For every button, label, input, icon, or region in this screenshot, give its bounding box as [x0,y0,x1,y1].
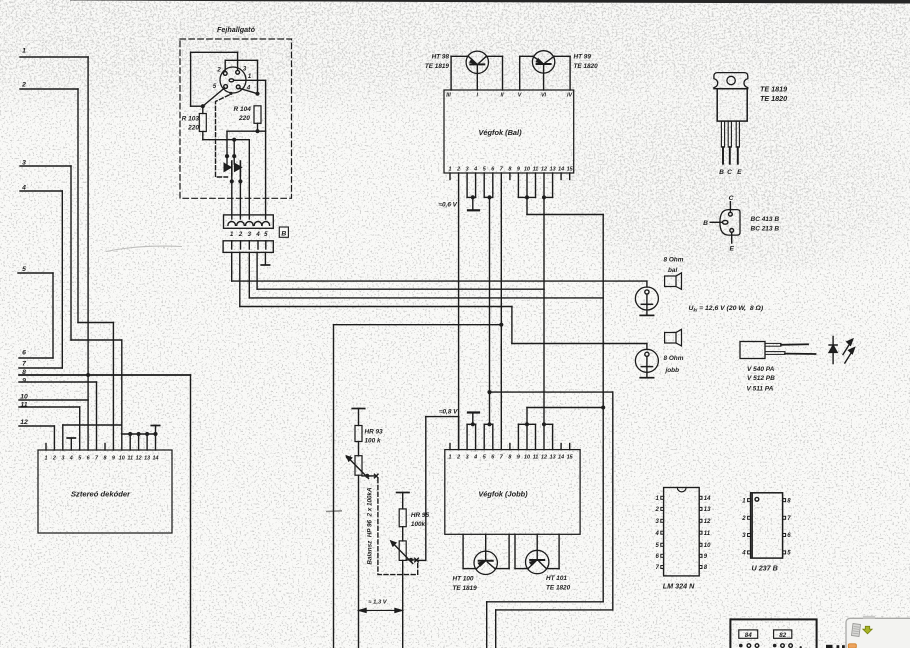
dimension 1.3V [359,600,401,613]
wire net2 (wire2 to decoder pin9) [78,89,113,450]
wire R103 bottom rail [203,140,250,219]
svg-text:13: 13 [550,455,556,461]
svg-text:100k: 100k [411,521,426,528]
LED symbol D1 [829,336,854,363]
jack socket 8 Ohm jobb [635,344,658,378]
wire DIN pin3 loop [191,52,238,106]
svg-text:TE 1820: TE 1820 [760,94,787,103]
wire 4 (left input stub) [20,185,62,192]
svg-text:Sztereó dekóder: Sztereó dekóder [71,490,131,499]
svg-text:Balansz HP 96 2 x 100kA: Balansz HP 96 2 x 100kA [367,487,374,565]
svg-text:R 104: R 104 [234,106,252,113]
svg-text:8: 8 [508,455,511,461]
svg-text:14: 14 [558,455,564,461]
service box 84 82 [730,619,816,648]
wire 5 (left input stub) [18,266,53,273]
svg-text:12: 12 [541,455,547,461]
svg-text:HT 98: HT 98 [432,54,450,61]
wire Jobb pins 3+4 terminal [467,413,479,450]
wire 8 (left input stub) [19,369,191,376]
svg-text:Uki = 12,6 V (20 W, 8 Ω): Uki = 12,6 V (20 W, 8 Ω) [689,305,764,313]
wire B2 to right speaker jack [240,252,647,343]
svg-text:BC 213 B: BC 213 B [751,226,780,233]
wire DIN pin4 diagonal [239,88,257,93]
node HR93 wiper [362,474,378,478]
speaker icon jobb [665,329,682,346]
decoder pin numbers 1-14 [45,455,159,461]
node R104 top [255,92,259,96]
decoder pin1 stub [45,444,47,451]
node branch 5-6 column [487,390,612,648]
wire column pins 5+6 Bal-Jobb [484,173,493,424]
wire column pin2 Bal-Jobb [458,173,460,450]
decoder pin8 stub [104,444,106,451]
artifact smear [326,510,342,513]
node switch feed [232,138,236,157]
switch contact S1a [224,154,234,219]
node pin7 tap [334,323,504,648]
label 0.8V [439,409,458,416]
svg-text:3: 3 [466,455,469,461]
transistor HT98 TE1819 [425,51,503,73]
svg-text:100 k: 100 k [365,438,381,445]
svg-text:III: III [446,93,451,99]
svg-text:9: 9 [112,455,115,461]
svg-text:12: 12 [704,519,711,525]
svg-text:2: 2 [741,516,746,522]
wire net3 (wire3 to decoder pin10 and rail) [71,166,122,450]
wire 1 (left input stub) [20,48,88,58]
wire net9 to decoder pin7 [96,382,98,450]
faint scratch artifact [106,246,182,251]
svg-text:HT 101: HT 101 [546,575,567,582]
wire 9 (left input stub) [19,377,97,384]
svg-text:15: 15 [567,455,574,461]
potentiometer HR93 100k [347,409,383,648]
terminal T above decoder pin14 [151,426,159,435]
UI icon green download arrow [863,626,872,634]
transistor HT99 TE1820 [520,51,598,73]
UI icon document [852,624,861,637]
svg-text:4: 4 [255,232,260,238]
svg-text:VI: VI [541,93,547,99]
svg-text:V 512 PB: V 512 PB [747,375,775,382]
wire Jobb pins 5+6 tie [484,422,493,449]
svg-text:R 103: R 103 [182,116,200,123]
svg-text:13: 13 [144,455,150,461]
svg-text:9: 9 [517,167,520,173]
svg-text:11: 11 [533,167,539,173]
svg-text:E: E [737,169,742,176]
IC LM324N DIP14 [654,488,711,576]
svg-text:12: 12 [541,167,547,173]
label BC413B BC213B [751,216,780,233]
Bal pin stubs [450,173,570,180]
svg-text:2: 2 [21,82,26,89]
LED package V540PA [740,342,816,359]
transistor HT101 TE1820 [515,534,571,591]
jack socket 8 Ohm bal [635,281,658,315]
svg-text:15: 15 [567,167,574,173]
wire 6 (left input stub) [19,350,53,359]
IC U237B DIP8 [741,493,791,558]
svg-text:10: 10 [119,455,125,461]
TO-220 legs B C E [719,121,742,176]
wire B3 [249,252,603,298]
svg-text:BC 413 B: BC 413 B [751,216,780,223]
label Balansz HP96 [367,487,374,565]
artifact checkmark blob [346,455,352,460]
svg-text:2: 2 [654,507,659,513]
svg-text:6: 6 [22,350,26,357]
svg-text:1: 1 [22,48,26,55]
svg-text:TE 1819: TE 1819 [453,585,478,592]
connector B pin numbers 1-5 [230,232,268,238]
label 0.6V [439,202,458,209]
wire column pin7 Bal-Jobb [500,173,502,450]
wire net4-7 vertical [61,191,63,368]
potentiometer HR95 100k [391,493,430,648]
wire Jobb pins 9+10+11 tie [518,408,603,450]
svg-text:1: 1 [449,167,452,173]
power amp module Vegfok (Jobb) [445,450,580,535]
svg-text:4: 4 [473,455,477,461]
wire decoder pin3 link [63,425,122,450]
svg-text:TE 1819: TE 1819 [425,63,450,70]
svg-text:≈ 1,3 V: ≈ 1,3 V [368,600,387,606]
svg-text:Fejhallgató: Fejhallgató [217,25,256,34]
svg-text:2: 2 [456,167,460,173]
wire B1 to left speaker jack [232,252,647,281]
svg-text:Végfok (Jobb): Végfok (Jobb) [478,490,528,499]
svg-text:II: II [501,93,504,99]
transistor pinout BC413B/BC213B [703,195,740,253]
svg-text:13: 13 [704,507,711,513]
svg-text:9: 9 [22,377,26,384]
svg-text:HT 99: HT 99 [574,54,592,61]
wire B4 [257,252,544,289]
svg-text:3: 3 [61,455,64,461]
wire 3 (left input stub) [20,160,71,167]
svg-text:84: 84 [745,632,752,639]
svg-text:4: 4 [741,551,746,557]
wire DIN pin2 loop [225,60,257,93]
wire Jobb pins 12+13 tie [542,422,553,449]
svg-text:220: 220 [238,115,250,122]
connector block B lower row plug [223,241,273,253]
wire vertical net1 (wire1 to decoder pin6) [87,57,89,450]
label U237B [752,564,778,573]
wire net8 long run to bottom [19,375,191,648]
svg-text:2: 2 [216,68,221,74]
wire column pins 12+13 Bal-Jobb [542,173,553,424]
wire R104 bottom rail [227,131,266,156]
wire 2 (left input stub) [20,82,78,90]
scan edge dark bar top [70,0,910,4]
Bal top pin wires and roman numerals [446,56,572,98]
UI overlay panel bottom right [846,616,910,648]
wire DIN pin1 to B5 [234,80,266,219]
wire net5-6 vertical [52,273,54,358]
svg-text:8 Ohm: 8 Ohm [664,355,684,362]
resistor R104 220 [234,106,262,131]
Jobb pin stubs [450,444,570,450]
label B boxed [279,227,288,238]
wire 7 (left input stub) [19,361,62,369]
svg-text:2: 2 [238,232,243,238]
wire Bal pins 3+4 to ground [467,173,479,210]
svg-text:V 540 PA: V 540 PA [747,366,775,373]
wire 12 (left input stub) [19,419,54,426]
wire Bal pins 9+10+11 [518,173,603,602]
svg-text:8: 8 [508,167,511,173]
svg-text:≈0,8 V: ≈0,8 V [439,409,458,416]
svg-text:bal: bal [668,267,677,274]
svg-text:TE 1820: TE 1820 [546,585,571,592]
svg-text:E: E [729,246,734,253]
bottom clipped text [826,645,845,648]
svg-text:10: 10 [524,167,530,173]
svg-text:HR 95: HR 95 [411,512,430,519]
ground terminal B5 [261,252,269,265]
node junction wire8/wire1 [86,373,90,377]
svg-text:14: 14 [558,167,564,173]
resistor R103 220 [182,106,207,140]
mechanical link dashed jack switch [216,92,233,177]
svg-text:HT 100: HT 100 [453,576,474,583]
Jobb top pin numbers 1-15 [449,455,574,461]
svg-text:10: 10 [524,455,530,461]
label 8 Ohm jobb [664,355,684,374]
svg-text:B: B [281,231,286,238]
power amp module Vegfok (Bal) [444,90,574,173]
svg-text:14: 14 [704,496,711,502]
svg-text:LM 324 N: LM 324 N [663,582,695,591]
svg-text:V: V [518,93,522,99]
node jobb 9-10-11 join [487,405,606,648]
label V540PA V512PB V511PA [747,366,776,393]
svg-text:V 511 PA: V 511 PA [747,386,774,393]
svg-text:11: 11 [127,455,133,461]
stereo decoder box U-dek [38,450,172,533]
svg-text:13: 13 [550,167,556,173]
Bal bottom pin numbers 1-15 [449,167,574,173]
svg-text:2: 2 [52,455,56,461]
svg-text:4: 4 [654,531,659,537]
svg-text:11: 11 [533,455,539,461]
svg-text:C: C [727,169,732,176]
label 8 Ohm bal [664,257,684,275]
headphone section dashed box Fejhallgato [180,25,292,198]
connector block B upper row sockets [224,215,274,228]
svg-text:Végfok (Bal): Végfok (Bal) [478,128,522,137]
svg-text:12: 12 [20,419,28,426]
label TE1819 TE1820 [760,85,787,104]
UI icon orange [848,644,856,648]
transistor HT100 TE1819 [453,534,510,592]
svg-text:TE 1819: TE 1819 [760,85,787,94]
wire 0.8V feed to Jobb pin2 [426,417,459,561]
wire 11 (left input stub) [19,401,80,408]
DIN connector J1 [213,67,252,94]
node HR95 wiper [406,558,426,562]
svg-text:9: 9 [517,455,520,461]
svg-text:1: 1 [449,455,452,461]
speaker icon bal [665,273,682,290]
mechanical link dashed ganged pot HP96 [378,479,418,575]
svg-text:10: 10 [704,543,711,549]
svg-text:B: B [703,220,708,227]
node R103 top [201,104,205,108]
svg-text:≈0,6 V: ≈0,6 V [439,202,458,209]
svg-text:B: B [719,169,724,176]
package TO-220 TE1819/TE1820 [714,73,748,122]
svg-text:8: 8 [103,455,106,461]
wire net11 to decoder pin5 [79,407,81,450]
svg-text:220: 220 [187,125,199,132]
svg-text:3: 3 [466,167,469,173]
svg-text:HR 93: HR 93 [365,429,384,436]
svg-text:jobb: jobb [665,367,680,374]
wire 10 (left input stub) [19,394,88,401]
svg-text:1: 1 [45,455,48,461]
svg-text:4: 4 [69,455,73,461]
svg-text:4: 4 [473,167,477,173]
wire DIN pin5 diagonal [203,88,225,106]
svg-text:U 237 B: U 237 B [752,564,778,573]
capacitor terminal decoder pin4 [67,438,75,450]
svg-text:8 Ohm: 8 Ohm [664,257,684,264]
svg-text:2: 2 [456,455,460,461]
switch contact S1b [232,154,242,219]
node R104 bottom [255,129,259,133]
svg-text:12: 12 [136,455,142,461]
svg-text:82: 82 [779,632,786,639]
label Uki output voltage [689,305,764,313]
svg-text:11: 11 [704,531,711,537]
label LM324N [663,582,695,591]
svg-text:IV: IV [567,93,572,99]
svg-text:5: 5 [22,266,26,273]
svg-text:14: 14 [152,455,158,461]
svg-text:C: C [729,195,734,202]
svg-text:TE 1820: TE 1820 [574,63,599,70]
wire rail decoder pins 11-14 [122,432,158,450]
wire net12 to decoder pin2 [53,426,55,450]
